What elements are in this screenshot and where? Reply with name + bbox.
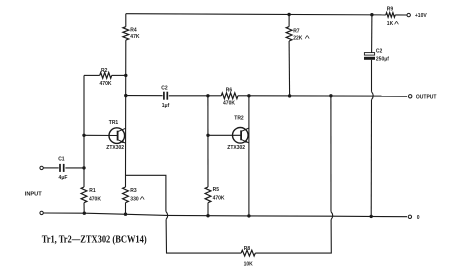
node: junction TR2 emitter/ground rail <box>247 214 250 217</box>
svg-text:R4: R4 <box>130 28 137 34</box>
wire: R9 to +10V terminal <box>395 14 407 16</box>
node: OUTPUT terminal <box>409 95 437 101</box>
svg-text:470K: 470K <box>100 81 112 87</box>
wire: TR1 collector line (top rail to R4) <box>125 14 127 27</box>
node: junction R6/TR2 collector <box>247 94 250 97</box>
svg-text:470K: 470K <box>89 196 101 202</box>
node: junction C2 250uF/ground rail <box>370 215 373 218</box>
svg-text:C2: C2 <box>161 85 168 91</box>
wire: TR2 base vertical line <box>207 96 209 187</box>
resistor R1 470K <box>81 187 101 213</box>
node: junction base/R2 wire <box>82 134 85 137</box>
wire: output rail (TR2 collector / output node) <box>249 95 407 97</box>
resistor R4 47K <box>123 27 140 41</box>
resistor R2 470K feedback <box>84 68 126 87</box>
resistor R7 22K collector load <box>286 15 309 96</box>
svg-text:R8: R8 <box>244 246 251 252</box>
svg-text:TR2: TR2 <box>234 116 244 122</box>
svg-text:R1: R1 <box>89 188 96 194</box>
svg-text:0: 0 <box>417 215 420 221</box>
node: junction TR2 base branch <box>206 134 209 137</box>
capacitor C1 4uF <box>58 157 67 181</box>
svg-text:C2: C2 <box>376 48 383 54</box>
wire: TR1 collector to C2 <box>126 95 163 97</box>
svg-text:470K: 470K <box>213 195 225 201</box>
svg-text:ZTX302: ZTX302 <box>106 145 124 151</box>
wire: TR1 base vertical line <box>83 75 85 187</box>
wire: hop to ground rail <box>370 100 372 217</box>
svg-text:C1: C1 <box>58 157 65 163</box>
svg-text:1K: 1K <box>387 21 394 27</box>
node: junction R3/ground rail <box>124 213 127 216</box>
transistor TR2 ZTX302 <box>208 116 249 152</box>
node: 0V terminal left <box>40 211 43 214</box>
node: junction TR2 base branch top <box>206 94 209 97</box>
svg-text:R9: R9 <box>387 6 394 12</box>
svg-text:R2: R2 <box>101 68 108 74</box>
wire: R4 to TR1 collector/emitter line <box>125 40 127 187</box>
wire: emitter feedback hop over ground rail <box>166 211 168 219</box>
svg-text:R6: R6 <box>226 87 233 93</box>
svg-text:Tr1, Tr2—ZTX302 (BCW14): Tr1, Tr2—ZTX302 (BCW14) <box>42 234 147 245</box>
node: +10V terminal <box>407 13 427 19</box>
svg-text:4μF: 4μF <box>59 175 68 181</box>
svg-text:OUTPUT: OUTPUT <box>416 95 437 101</box>
node: 0V terminal right <box>408 215 420 221</box>
svg-text:R5: R5 <box>213 187 220 193</box>
transistor TR1 ZTX302 <box>84 120 126 151</box>
node: junction feedback/output rail <box>329 94 332 97</box>
node: INPUT terminal <box>25 166 44 197</box>
wire: hop over output rail <box>372 92 374 100</box>
node: junction C2 coupling branch <box>124 94 127 97</box>
resistor R6 470K feedback <box>208 87 249 106</box>
svg-text:R7: R7 <box>293 29 300 35</box>
wire: C2 250uF to hop <box>371 60 373 92</box>
resistor R8 10K <box>241 246 255 267</box>
resistor R9 <box>386 6 399 27</box>
svg-text:1μf: 1μf <box>162 103 170 109</box>
resistor R3 330 <box>123 187 145 214</box>
node: junction R1/ground rail <box>83 212 86 215</box>
node: junction C1 wire <box>82 166 85 169</box>
wire: bottom wire R8 to feedback riser <box>255 220 331 254</box>
svg-text:TR1: TR1 <box>109 120 119 126</box>
node: junction R5/ground rail <box>206 214 209 217</box>
wire: feedback riser hop over ground rail <box>331 212 333 220</box>
svg-text:250μf: 250μf <box>376 57 389 63</box>
svg-text:47K: 47K <box>130 34 140 40</box>
wire: emitter feedback down to bottom wire <box>166 219 241 253</box>
capacitor C2 250uF electrolytic <box>364 15 389 63</box>
wire: feedback riser to output rail <box>330 96 332 212</box>
svg-text:470K: 470K <box>223 101 235 107</box>
svg-text:INPUT: INPUT <box>25 191 42 197</box>
wire: input terminal to C1 <box>43 167 58 169</box>
svg-text:10K: 10K <box>244 262 254 267</box>
wire: C1 to TR1 base line <box>65 167 84 169</box>
wire: TR2 collector/emitter line <box>248 96 250 216</box>
svg-text:R3: R3 <box>130 188 137 194</box>
caption: Tr1, Tr2-ZTX302 (BCW14) <box>42 234 147 245</box>
resistor R5 470K <box>205 187 225 216</box>
svg-text:330: 330 <box>130 196 139 202</box>
svg-text:22K: 22K <box>293 35 303 41</box>
node: junction R2/collector line <box>124 74 127 77</box>
wire: C2 to TR2 base node <box>169 95 208 97</box>
node: junction C2 250uF/top rail <box>370 13 373 16</box>
wire: TR1 emitter to feedback corner <box>126 175 166 211</box>
svg-text:ZTX302: ZTX302 <box>227 145 245 151</box>
wire: 0V ground rail <box>43 213 407 217</box>
svg-text:+10V: +10V <box>415 13 427 19</box>
node: junction R7/top rail <box>287 13 290 16</box>
capacitor C2 1uF coupling <box>161 85 169 109</box>
node: junction R7/output rail <box>288 94 291 97</box>
wire: +V top rail <box>126 14 386 15</box>
